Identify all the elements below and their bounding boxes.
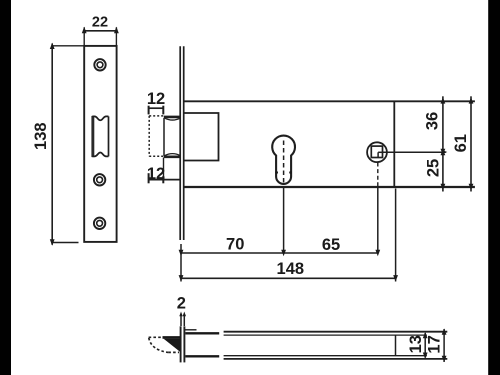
svg-text:138: 138 — [32, 122, 50, 150]
svg-text:13: 13 — [407, 335, 425, 353]
svg-text:2: 2 — [177, 295, 186, 313]
svg-text:70: 70 — [226, 235, 244, 253]
svg-text:12: 12 — [147, 90, 165, 108]
svg-text:22: 22 — [92, 14, 108, 30]
svg-text:148: 148 — [277, 260, 305, 278]
svg-text:65: 65 — [322, 236, 340, 254]
svg-text:17: 17 — [426, 335, 444, 353]
svg-text:36: 36 — [424, 112, 442, 130]
svg-text:61: 61 — [452, 134, 470, 152]
svg-text:25: 25 — [424, 159, 442, 177]
